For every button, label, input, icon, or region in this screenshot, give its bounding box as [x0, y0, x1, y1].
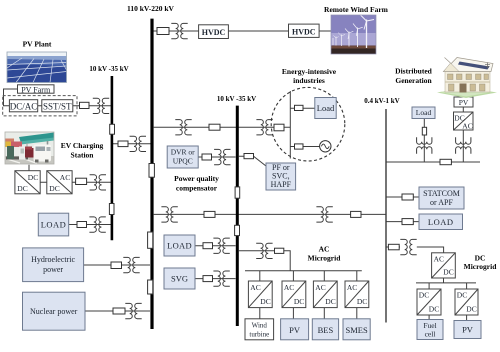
- svg-text:Hydroelectric: Hydroelectric: [31, 255, 75, 264]
- svg-text:Microgrid: Microgrid: [464, 262, 498, 271]
- svg-text:SMES: SMES: [345, 325, 367, 335]
- svg-text:Nuclear power: Nuclear power: [30, 307, 78, 316]
- svg-text:DVR or: DVR or: [171, 148, 195, 157]
- svg-text:Microgrid: Microgrid: [308, 254, 342, 263]
- svg-text:DC: DC: [466, 305, 476, 314]
- svg-text:DC: DC: [457, 291, 467, 300]
- svg-text:HAPF: HAPF: [271, 180, 292, 189]
- svg-text:Power quality: Power quality: [174, 174, 219, 183]
- svg-text:power: power: [43, 265, 63, 274]
- svg-text:110 kV-220 kV: 110 kV-220 kV: [127, 4, 175, 13]
- svg-text:HVDC: HVDC: [202, 28, 226, 37]
- svg-text:AC: AC: [434, 255, 444, 264]
- svg-text:DC: DC: [294, 297, 304, 306]
- svg-text:DC: DC: [49, 184, 59, 193]
- svg-text:LOAD: LOAD: [428, 217, 454, 227]
- svg-text:BES: BES: [318, 325, 334, 335]
- svg-text:SST/ST: SST/ST: [43, 101, 72, 111]
- svg-text:PV: PV: [289, 325, 301, 335]
- svg-text:PV Farm: PV Farm: [21, 85, 51, 94]
- svg-text:Remote Wind Farm: Remote Wind Farm: [324, 5, 389, 14]
- svg-text:or APF: or APF: [430, 198, 453, 207]
- svg-text:0.4 kV-1 kV: 0.4 kV-1 kV: [364, 97, 399, 105]
- svg-text:Station: Station: [71, 151, 95, 160]
- svg-text:LOAD: LOAD: [167, 241, 192, 251]
- svg-text:DC: DC: [260, 297, 270, 306]
- svg-text:industries: industries: [293, 76, 325, 85]
- svg-text:DC: DC: [28, 173, 38, 182]
- svg-text:Distributed: Distributed: [395, 67, 432, 76]
- svg-text:AC: AC: [319, 245, 330, 254]
- svg-text:DC/AC: DC/AC: [10, 101, 38, 111]
- svg-text:AC: AC: [250, 283, 260, 292]
- svg-text:AC: AC: [462, 122, 472, 131]
- svg-text:Wind: Wind: [252, 322, 268, 330]
- svg-text:EV Charging: EV Charging: [61, 141, 104, 150]
- svg-text:STATCOM: STATCOM: [423, 189, 460, 198]
- svg-text:HVDC: HVDC: [292, 27, 316, 36]
- svg-text:UPQC: UPQC: [173, 156, 193, 165]
- svg-text:DC: DC: [429, 305, 439, 314]
- svg-text:turbine: turbine: [249, 331, 269, 339]
- svg-text:PV: PV: [462, 325, 474, 335]
- svg-text:AC: AC: [60, 173, 70, 182]
- svg-text:PV Plant: PV Plant: [23, 40, 52, 49]
- svg-text:10 kV -35 kV: 10 kV -35 kV: [217, 95, 256, 103]
- svg-text:LOAD: LOAD: [41, 220, 67, 230]
- svg-text:DC: DC: [443, 268, 453, 277]
- svg-text:DC: DC: [17, 184, 27, 193]
- svg-text:AC: AC: [315, 283, 325, 292]
- svg-text:cell: cell: [425, 330, 436, 339]
- svg-text:DC: DC: [325, 297, 335, 306]
- svg-text:AC: AC: [284, 283, 294, 292]
- svg-text:DC: DC: [419, 291, 429, 300]
- svg-text:compensator: compensator: [176, 184, 218, 193]
- svg-text:DC: DC: [357, 297, 367, 306]
- svg-text:Generation: Generation: [395, 76, 432, 85]
- svg-text:Load: Load: [317, 103, 335, 113]
- svg-text:10 kV -35 kV: 10 kV -35 kV: [89, 65, 128, 73]
- svg-text:SVG: SVG: [171, 274, 188, 284]
- svg-text:Load: Load: [416, 108, 432, 117]
- svg-text:Energy-intensive: Energy-intensive: [282, 67, 337, 76]
- svg-text:PV: PV: [459, 98, 469, 107]
- svg-text:AC: AC: [347, 283, 357, 292]
